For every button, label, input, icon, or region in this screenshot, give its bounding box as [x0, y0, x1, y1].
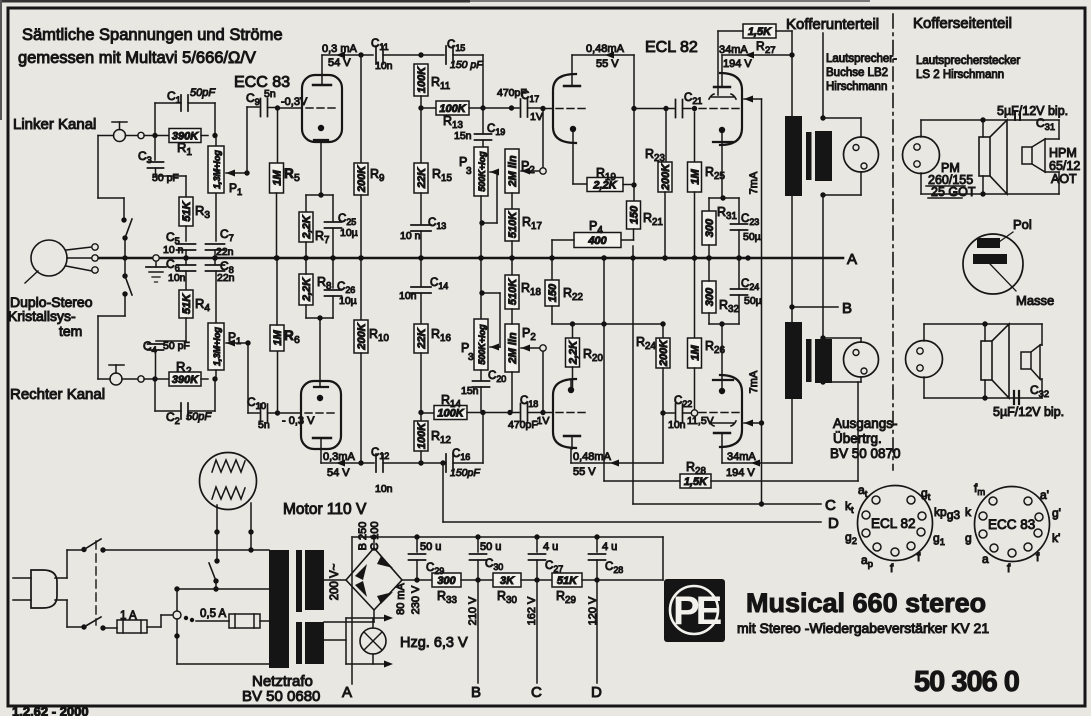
svg-text:3K: 3K — [500, 575, 515, 587]
tube ECL82 pentode upper grid dashes — [699, 108, 740, 110]
svg-text:300: 300 — [704, 287, 716, 306]
C row — [633, 503, 821, 505]
tube ECL82 pentode upper screen grid — [709, 94, 736, 99]
junction C5 bus — [183, 255, 188, 260]
resistor R30 3K — [493, 573, 521, 587]
capacitor C17 470pF — [520, 99, 522, 117]
resistor R32 300 — [702, 281, 716, 313]
resistor R12 100K — [420, 413, 422, 422]
svg-text:27: 27 — [765, 45, 776, 56]
svg-text:150 pF: 150 pF — [450, 59, 483, 71]
resistor R16 22K — [420, 294, 422, 324]
wire speaker loop bottom lower with C32 — [923, 377, 925, 398]
speaker socket loop upper — [822, 33, 824, 118]
rectifier B250 C100 diamond — [346, 548, 402, 610]
resistor R1 390K — [169, 129, 201, 143]
svg-text:1,3M+log: 1,3M+log — [212, 327, 222, 366]
motor circle — [200, 453, 257, 510]
cathode network upper output — [720, 195, 725, 200]
jack Rechter Kanal — [109, 364, 124, 366]
wire primary x792 upper — [791, 31, 793, 116]
svg-text:tem: tem — [59, 323, 82, 339]
svg-text:34mA: 34mA — [719, 44, 748, 56]
screen wire 7mA upper — [744, 96, 753, 103]
svg-text:10µ: 10µ — [340, 227, 358, 239]
D row — [443, 521, 821, 523]
tube ECC83 upper envelope — [302, 75, 342, 142]
svg-text:R: R — [284, 328, 294, 343]
wire x604 bus to R28 row — [603, 258, 605, 481]
svg-text:6: 6 — [294, 334, 300, 346]
node -0,3V lower — [275, 410, 280, 415]
svg-text:0,48mA: 0,48mA — [586, 43, 625, 55]
svg-text:400: 400 — [587, 235, 607, 247]
wire grid to tube ECC83 lower — [278, 412, 302, 414]
capacitor C15 150pF — [421, 54, 444, 56]
C21 grid row upper — [634, 108, 666, 110]
junction bus left — [122, 255, 127, 260]
svg-text:200K: 200K — [356, 322, 368, 350]
capacitor C12 10n — [375, 454, 377, 472]
junction R11 top — [418, 52, 423, 57]
svg-text:1M: 1M — [272, 330, 284, 346]
resistor R8 2,2K — [299, 274, 313, 305]
svg-text:Musical 660 stereo: Musical 660 stereo — [746, 588, 986, 618]
resistor R4 51K — [185, 271, 187, 290]
output transformer lower primary bar — [785, 322, 802, 399]
svg-text:Lautsprecherstecker: Lautsprecherstecker — [916, 55, 1020, 67]
tube ECC83 upper cathode — [318, 125, 324, 131]
svg-text:HPM: HPM — [1049, 146, 1077, 160]
anode row 34mA upper — [722, 54, 792, 56]
resistor R18 510K — [505, 275, 519, 309]
junction C19 top — [480, 105, 485, 110]
capacitor C26 10u — [332, 258, 334, 288]
heater lamp — [360, 628, 386, 654]
svg-text:Linker Kanal: Linker Kanal — [13, 116, 96, 133]
resistor R3 51K — [185, 176, 187, 197]
svg-text:Buchse LB2: Buchse LB2 — [826, 67, 888, 79]
motor tap wire — [213, 586, 218, 591]
wire anode row 0,3mA upper — [321, 55, 323, 75]
svg-text:2,2K: 2,2K — [301, 214, 313, 239]
svg-text:162 V: 162 V — [526, 596, 538, 625]
junction R1 left — [152, 133, 157, 138]
capacitor C7 22n — [215, 193, 217, 241]
open terminal right channel — [138, 376, 144, 382]
lower socket loop — [823, 337, 861, 339]
svg-text:300: 300 — [704, 218, 716, 237]
svg-text:Ausgangs-: Ausgangs- — [833, 416, 898, 431]
svg-text:50 306 0: 50 306 0 — [914, 666, 1019, 698]
svg-text:200K: 200K — [658, 339, 670, 367]
terminal circles — [92, 244, 98, 250]
voltage selector column — [176, 589, 178, 610]
cathode network lower-left tube — [317, 315, 322, 320]
svg-text:34mA: 34mA — [727, 451, 756, 463]
wire R3 to C5 — [185, 226, 187, 241]
row y324 — [552, 323, 663, 325]
P2 upper wiper — [540, 168, 546, 174]
svg-text:-1V: -1V — [533, 415, 549, 427]
A drop wire — [351, 537, 353, 684]
tube ECC83 lower envelope — [301, 381, 341, 449]
svg-text:11,5V: 11,5V — [687, 415, 714, 427]
svg-text:15n: 15n — [454, 130, 472, 142]
junction R14 row — [418, 410, 423, 415]
speaker socket LB2 lower — [844, 342, 879, 377]
svg-text:80 mA: 80 mA — [395, 582, 407, 614]
svg-text:500K+log: 500K+log — [477, 324, 487, 365]
svg-text:a: a — [982, 552, 989, 566]
tube ECL82 pentode lower grid dashes — [699, 412, 740, 414]
resistor R6 1M — [277, 351, 279, 413]
tube ECL82 triode upper cathode — [570, 126, 576, 132]
switch upper channel — [121, 217, 126, 222]
svg-text:55 V: 55 V — [596, 58, 619, 70]
svg-text:2,2K: 2,2K — [568, 340, 580, 365]
svg-text:200K: 200K — [660, 163, 672, 191]
mains switch lower — [81, 624, 86, 629]
potentiometer P1 lower 1,3M+log — [208, 323, 224, 370]
D drop wire — [596, 580, 598, 683]
output transformer upper core bar — [806, 132, 812, 180]
PE logo — [664, 579, 725, 642]
capacitor C13 10n — [420, 193, 422, 224]
wire jack to R1 node — [126, 135, 139, 137]
cathode network lower output — [719, 321, 724, 326]
svg-text:5: 5 — [294, 172, 300, 184]
svg-text:300: 300 — [437, 575, 456, 587]
resistor R31 300 — [708, 198, 710, 211]
junction P2 upper top — [509, 105, 514, 110]
svg-text:2M lin: 2M lin — [507, 332, 519, 364]
tube ECL82 triode upper envelope — [553, 74, 576, 143]
resistor R19 2,2K — [573, 183, 587, 185]
svg-text:1M: 1M — [690, 345, 702, 361]
svg-text:Motor 110 V: Motor 110 V — [283, 501, 367, 518]
svg-text:50pF: 50pF — [186, 411, 212, 423]
output transformer lower core bar — [806, 339, 812, 382]
svg-text:15n: 15n — [461, 385, 479, 397]
lower speaker loop wire top — [923, 324, 925, 341]
plug wires — [55, 577, 67, 579]
tube ECL82 triode upper grid dashes — [556, 108, 589, 110]
svg-text:230 V: 230 V — [410, 585, 422, 614]
tube ECL82 triode lower envelope — [553, 379, 576, 448]
svg-text:1M: 1M — [690, 169, 702, 185]
svg-text:50µ: 50µ — [743, 231, 761, 243]
capacitor C11 10n — [375, 46, 377, 64]
svg-text:AOT: AOT — [1051, 172, 1077, 186]
capacitor C28 4u — [596, 537, 598, 552]
svg-text:5µF/12V bip.: 5µF/12V bip. — [997, 104, 1068, 118]
svg-text:10n: 10n — [399, 290, 417, 302]
tube ECC83 upper grid dashes — [306, 107, 338, 109]
svg-text:10n: 10n — [375, 60, 393, 72]
speaker PM cone upper — [979, 137, 990, 176]
wire jack down to switch — [98, 135, 114, 137]
svg-text:Lautsprecher-: Lautsprecher- — [826, 53, 897, 65]
svg-text:194 V: 194 V — [723, 58, 752, 70]
svg-text:BV 50 0680: BV 50 0680 — [242, 688, 320, 705]
capacitor C2 50pF loop — [154, 379, 156, 411]
svg-text:0,5 A: 0,5 A — [200, 608, 227, 620]
svg-text:D: D — [591, 684, 602, 701]
svg-text:0,3mA: 0,3mA — [323, 451, 355, 463]
tube socket diagram ECL 82 — [845, 483, 960, 575]
svg-text:k: k — [965, 505, 972, 519]
heater wires Hzg — [324, 639, 346, 641]
svg-text:0,3 mA: 0,3 mA — [322, 43, 358, 55]
tube ECL82 pentode upper cathode — [719, 127, 725, 133]
node -0.3V upper — [275, 105, 280, 110]
motor winding zigzag upper — [212, 460, 245, 472]
selector contacts — [184, 616, 188, 620]
P2 lower wiper — [540, 345, 546, 351]
resistor R21 150 — [627, 201, 641, 229]
rectifier bottom wire — [373, 610, 375, 622]
svg-text:55 V: 55 V — [573, 466, 596, 478]
R25 grid node — [692, 106, 697, 111]
capacitor C21 10n — [666, 108, 674, 110]
resistor R33 300 — [432, 573, 461, 587]
tube ECL82 triode lower grid dashes — [556, 412, 589, 414]
connector PM circle upper — [903, 137, 940, 174]
svg-text:10 n: 10 n — [400, 230, 421, 242]
capacitor C23 50u — [738, 198, 740, 223]
resistor R10 200K — [360, 258, 362, 320]
wire x633 down to C row — [632, 246, 634, 504]
capacitor C22 10n — [663, 412, 674, 414]
svg-text:54 V: 54 V — [328, 57, 351, 69]
B drop wire — [477, 580, 479, 683]
tube ECL82 pentode lower cathode — [719, 388, 725, 394]
panel separator dash-dot — [892, 14, 894, 470]
resistor R22 150 — [551, 258, 553, 280]
svg-text:5n: 5n — [258, 419, 270, 431]
svg-text:22K: 22K — [416, 327, 428, 349]
svg-text:a': a' — [1040, 488, 1049, 502]
svg-text:22n: 22n — [217, 272, 235, 284]
capacitor C5 10n — [177, 243, 196, 245]
svg-text:65/12: 65/12 — [1049, 159, 1080, 173]
svg-text:ECC 83: ECC 83 — [234, 74, 290, 91]
capacitor C8 22n — [214, 258, 216, 264]
cathode network upper-left tube — [320, 142, 322, 195]
resistor R28 1,5K — [604, 480, 680, 482]
wire speaker loop bottom upper — [920, 173, 922, 194]
wire 200V to rectifier — [324, 579, 346, 581]
anode row 0,3mA lower — [320, 449, 322, 463]
svg-text:1,5K: 1,5K — [684, 476, 708, 488]
svg-text:B: B — [471, 684, 481, 701]
speaker HPM upper — [1022, 147, 1032, 164]
svg-text:4 u: 4 u — [602, 541, 617, 553]
resistor R13 100K — [421, 107, 436, 109]
rectifier diodes — [355, 564, 367, 580]
tube ECL82 triode lower cathode — [568, 387, 574, 393]
C drop wire — [536, 580, 538, 683]
svg-text:5n: 5n — [264, 88, 276, 100]
svg-text:10n: 10n — [168, 272, 186, 284]
switch lower channel — [122, 273, 127, 278]
P3 lower wiper — [490, 344, 499, 351]
capacitor C3 50pF — [154, 136, 156, 161]
svg-text:51K: 51K — [181, 200, 193, 221]
resistor R29 51K — [552, 573, 582, 587]
svg-text:50 pF: 50 pF — [152, 172, 179, 184]
resistor R26 1M — [694, 258, 696, 338]
tube ECL82 pentode upper anode — [714, 86, 730, 88]
svg-text:ECC 83: ECC 83 — [988, 517, 1035, 532]
capacitor C24 50u — [738, 258, 740, 288]
svg-text:0,48mA: 0,48mA — [573, 451, 612, 463]
upper speaker loop wire top — [920, 120, 922, 137]
tube ECC83 lower cathode — [317, 395, 323, 401]
svg-text:51K: 51K — [181, 293, 193, 314]
svg-text:Hirschmann: Hirschmann — [826, 81, 887, 93]
P1 upper wiper — [226, 170, 235, 177]
svg-text:Masse: Masse — [1016, 293, 1054, 308]
jack Linker Kanal — [112, 121, 127, 123]
tube ECL82 pentode lower screen grid — [709, 421, 736, 426]
tube ECL82 triode upper anode — [564, 85, 580, 87]
tube socket diagram ECC 83 — [965, 481, 1061, 575]
resistor R5 1M — [277, 108, 279, 163]
capacitor C14 10n — [420, 258, 422, 286]
junction R2 right — [212, 376, 217, 381]
svg-text:500K+log: 500K+log — [477, 151, 487, 192]
tube ECC83 upper anode — [313, 84, 331, 86]
svg-text:120 V: 120 V — [587, 596, 599, 625]
motor winding zigzag lower — [212, 487, 245, 499]
wire speaker return vertical — [822, 195, 824, 382]
svg-text:1,5K: 1,5K — [748, 26, 772, 38]
resistor R11 100K — [414, 64, 428, 96]
resistor R7 2,2K — [305, 195, 307, 212]
capacitor C25 10u — [332, 195, 334, 221]
connector PM circle lower — [906, 341, 943, 378]
svg-text:Kofferseitenteil: Kofferseitenteil — [913, 15, 1012, 32]
junction R13 row left — [418, 105, 423, 110]
svg-text:2,2K: 2,2K — [301, 277, 313, 302]
junction R12 bottom / C16 row — [418, 460, 423, 465]
svg-text:1.2.62 - 2000: 1.2.62 - 2000 — [12, 704, 89, 716]
svg-text:200 V~: 200 V~ — [329, 563, 341, 600]
open terminal left channel — [138, 132, 144, 138]
tube ECL82 triode lower anode — [564, 435, 580, 437]
mains plug — [31, 570, 57, 608]
resistor R23 200K — [665, 109, 667, 163]
anode row 0,48mA upper — [572, 54, 634, 56]
svg-text:2M lin: 2M lin — [507, 155, 519, 187]
capacitor C20 15n — [480, 370, 482, 380]
power transformer heater winding bar — [305, 622, 324, 664]
svg-text:5µF/12V bip.: 5µF/12V bip. — [993, 405, 1064, 419]
capacitor C19 15n — [482, 108, 484, 133]
svg-text:100K: 100K — [416, 422, 428, 449]
svg-text:50 pF: 50 pF — [163, 340, 190, 352]
svg-text:g': g' — [1052, 506, 1061, 520]
svg-text:150pF: 150pF — [450, 467, 480, 479]
capacitor C9 5n — [247, 106, 259, 108]
potentiometer P4 400 — [633, 229, 635, 240]
svg-text:R: R — [284, 166, 294, 181]
capacitor C6 10n — [185, 258, 187, 264]
svg-text:54 V: 54 V — [327, 467, 350, 479]
motor leads — [216, 505, 218, 532]
svg-text:3: 3 — [468, 352, 474, 363]
svg-text:150: 150 — [547, 283, 559, 302]
svg-text:Kofferunterteil: Kofferunterteil — [786, 16, 879, 33]
svg-text:ECL 82: ECL 82 — [871, 516, 916, 531]
svg-text:LS 2 Hirschmann: LS 2 Hirschmann — [916, 69, 1004, 81]
switch link dashed — [95, 541, 97, 625]
capacitor C30 50u — [477, 537, 479, 552]
wire mains to trafo — [103, 549, 269, 551]
potentiometer P3 lower 500K+log — [480, 258, 482, 319]
svg-text:50pF: 50pF — [190, 87, 216, 99]
svg-text:-0,3V: -0,3V — [281, 96, 308, 108]
capacitor C10 5n — [248, 412, 259, 414]
svg-text:10n: 10n — [668, 419, 686, 431]
junction P2 lower top... row — [507, 410, 512, 415]
power transformer 200V winding bar — [305, 550, 324, 610]
resistor R15 22K — [420, 108, 422, 163]
svg-text:ECL 82: ECL 82 — [645, 39, 698, 56]
svg-text:510K: 510K — [507, 278, 519, 305]
bus junction dots — [183, 255, 188, 260]
pickup terminal wires — [66, 247, 92, 250]
svg-text:Rechter Kanal: Rechter Kanal — [10, 386, 105, 403]
svg-text:C: C — [825, 497, 836, 514]
svg-text:PE: PE — [673, 589, 722, 633]
svg-text:R: R — [756, 39, 765, 53]
screen wire lower half — [761, 258, 763, 504]
anode row 0,48mA lower — [570, 449, 572, 463]
svg-text:Pol: Pol — [1013, 217, 1032, 232]
wire primary bottom to B — [791, 196, 793, 463]
svg-text:1V: 1V — [530, 111, 543, 123]
svg-text:51K: 51K — [557, 575, 578, 587]
resistor R9 200K — [358, 52, 363, 57]
svg-text:k': k' — [1052, 531, 1060, 545]
junction R1 right — [212, 133, 217, 138]
junction C7 bus — [212, 255, 217, 260]
svg-text:510K: 510K — [507, 211, 519, 238]
motor switch — [214, 558, 219, 563]
svg-text:390K: 390K — [172, 374, 199, 386]
tube ECC83 lower anode — [313, 437, 331, 439]
potentiometer P2 lower 2M lin — [511, 258, 513, 275]
capacitor C31 — [1014, 112, 1016, 120]
wire grid to tube ECC83 upper — [278, 107, 303, 109]
resistor R17 510K — [511, 193, 513, 209]
capacitor C27 4u — [536, 537, 538, 552]
mains switch upper — [81, 547, 86, 552]
svg-text:Kristallsys-: Kristallsys- — [8, 308, 76, 324]
tube ECL82 pentode upper envelope — [720, 73, 742, 145]
svg-text:200K: 200K — [356, 165, 368, 193]
svg-text:mit Stereo -Wiedergabeverstärk: mit Stereo -Wiedergabeverstärker KV 21 — [737, 620, 989, 636]
svg-text:A: A — [847, 251, 857, 268]
svg-text:150: 150 — [629, 205, 641, 224]
resistor R20 2,2K — [572, 324, 574, 338]
svg-text:7mA: 7mA — [748, 171, 760, 194]
capacitor C29 50u — [416, 537, 418, 552]
screen wire 7mA lower — [744, 420, 753, 427]
